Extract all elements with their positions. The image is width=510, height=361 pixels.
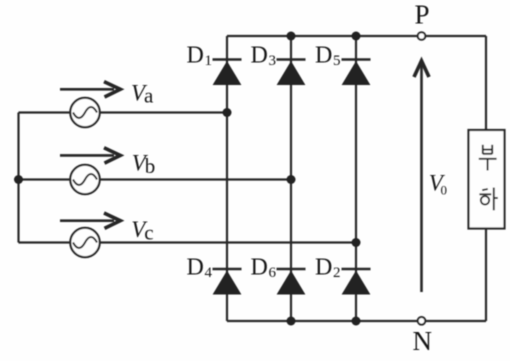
diode D4	[213, 269, 242, 294]
load label Korean Ha (하)	[479, 188, 497, 211]
junction dot phase c to D5/D2	[352, 238, 361, 247]
wire right vertical to load top	[485, 36, 487, 130]
svg-text:P: P	[415, 0, 430, 29]
junction dot bottom rail D6	[287, 317, 296, 326]
svg-text:0: 0	[441, 183, 448, 198]
junction dot phase a to D1/D4	[223, 108, 232, 117]
svg-text:D: D	[187, 255, 204, 281]
junction dot left bus phase b	[14, 175, 23, 184]
svg-text:5: 5	[333, 53, 341, 69]
svg-text:4: 4	[205, 265, 213, 281]
wire phase c horizontal	[19, 241, 357, 243]
junction dot phase b to D3/D6	[287, 175, 296, 184]
source Va	[70, 98, 99, 127]
source Vc	[70, 228, 99, 257]
wire left bus vertical	[17, 113, 19, 243]
source Vb	[70, 165, 99, 194]
svg-text:D: D	[251, 43, 268, 69]
node P terminal circle	[418, 32, 426, 40]
arrow phase a current direction	[60, 82, 120, 97]
svg-text:6: 6	[269, 265, 277, 281]
arrow V0 output voltage	[414, 61, 429, 292]
svg-text:D: D	[315, 255, 332, 281]
svg-text:a: a	[144, 84, 154, 108]
node N terminal circle	[418, 317, 426, 325]
svg-text:D: D	[315, 43, 332, 69]
svg-text:b: b	[145, 154, 156, 178]
junction dot bottom rail D2	[352, 317, 361, 326]
diode D3	[277, 60, 306, 85]
svg-text:1: 1	[205, 53, 213, 69]
wire bottom rail N	[227, 320, 486, 322]
diode D2	[342, 269, 371, 294]
arrow phase c current direction	[60, 213, 120, 228]
svg-text:N: N	[413, 326, 433, 356]
svg-text:c: c	[144, 220, 153, 244]
diode D5	[342, 60, 371, 85]
load label Korean Bu (부)	[479, 145, 497, 171]
wire top rail P	[227, 35, 486, 37]
svg-text:D: D	[187, 43, 204, 69]
svg-text:2: 2	[333, 265, 341, 281]
arrow phase b current direction	[60, 148, 120, 163]
svg-text:3: 3	[269, 53, 277, 69]
wire diode leg D3/D6 column	[290, 36, 292, 321]
load box	[469, 130, 505, 229]
wire diode leg D5/D2 column	[355, 36, 357, 321]
diode D1	[213, 60, 242, 85]
diode D6	[277, 269, 306, 294]
junction dot top rail D3	[287, 32, 296, 41]
wire right vertical from load bottom	[485, 229, 487, 322]
junction dot top rail D5	[352, 32, 361, 41]
svg-text:D: D	[251, 255, 268, 281]
wire phase a horizontal	[19, 111, 228, 113]
wire diode leg D1/D4 column	[226, 36, 228, 321]
wire phase b horizontal	[19, 178, 292, 180]
